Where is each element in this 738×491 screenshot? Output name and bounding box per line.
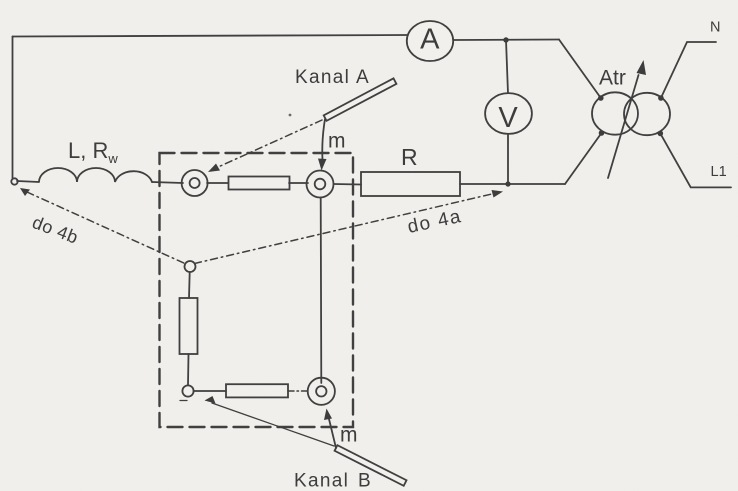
label do4a <box>406 206 464 238</box>
arrow m to T2 <box>322 119 325 160</box>
wire T1 to box resistor <box>207 182 228 184</box>
Atr connection dots <box>598 95 604 101</box>
resistor horizontal bottom <box>226 384 288 397</box>
svg-text:A: A <box>356 67 370 88</box>
svg-text:R: R <box>401 144 418 170</box>
wire junction to V <box>506 40 508 94</box>
wire L1 <box>660 133 731 187</box>
arrow m to T3 <box>329 417 337 448</box>
arrow probe to T1 (dash-dot) <box>216 120 322 168</box>
wire left vertical <box>12 37 14 179</box>
wire N <box>661 42 716 98</box>
wire diagonal to Atr upper-left <box>559 40 601 99</box>
dash fragment near node2 <box>180 400 191 402</box>
svg-text:N: N <box>710 20 720 36</box>
wire top horizontal <box>13 35 408 37</box>
label m bottom <box>340 424 358 447</box>
wire node2 to horizontal resistor <box>194 390 226 392</box>
wire T2 to R <box>334 183 362 186</box>
wire resistor to T2 <box>289 182 308 184</box>
wire vertical resistor to node2 <box>187 354 190 385</box>
terminal T1 <box>182 170 208 196</box>
junction dot top <box>503 37 508 42</box>
svg-text:Kanal: Kanal <box>294 471 349 491</box>
ink speck <box>289 114 292 117</box>
dash-dot wire to terminal <box>288 390 308 392</box>
probe Kanal B <box>335 445 407 486</box>
svg-text:Atr: Atr <box>599 67 626 90</box>
svg-text:L1: L1 <box>711 164 727 180</box>
svg-text:B: B <box>358 471 372 491</box>
node (scope tap) <box>185 261 196 272</box>
inductor L Rw <box>17 168 152 182</box>
wire node to vertical resistor <box>188 272 191 298</box>
node left terminal <box>11 178 17 184</box>
svg-text:m: m <box>328 130 346 153</box>
label do4b <box>30 212 82 248</box>
resistor vertical <box>180 298 198 354</box>
label Kanal B <box>294 471 372 491</box>
dash-dot do4b <box>27 192 185 264</box>
ammeter A <box>407 21 453 61</box>
wire A to junction to corner <box>453 39 559 42</box>
probe Kanal A <box>324 78 397 120</box>
label Atr <box>599 67 626 90</box>
Atr wiper arrow <box>608 75 639 178</box>
svg-text:A: A <box>420 24 440 56</box>
junction dot bottom <box>505 181 510 186</box>
wire diagonal to Atr lower-left <box>565 133 602 184</box>
wire inductor to terminal1 <box>152 182 183 183</box>
dashed box <box>160 153 354 427</box>
wire R to right with junction <box>460 183 565 185</box>
dash-dot do4a <box>195 194 495 264</box>
resistor R <box>361 172 460 196</box>
node 2 <box>182 385 193 396</box>
voltmeter V <box>485 93 532 134</box>
autotransformer Atr circles <box>592 92 638 134</box>
svg-text:V: V <box>498 102 518 134</box>
wire T2 down to bottom terminal <box>320 198 323 384</box>
label L,Rw <box>68 138 118 166</box>
label Kanal A <box>295 67 370 88</box>
terminal T2 (m) <box>307 171 334 198</box>
label m top <box>328 130 346 153</box>
terminal T3 (m bottom) <box>308 378 335 405</box>
arrow probe to node2 (dashed) <box>212 403 334 446</box>
wire V to bottom junction <box>507 134 509 184</box>
label L1 <box>711 164 727 180</box>
label N <box>710 20 720 36</box>
resistor (small, in box) <box>229 177 290 190</box>
svg-text:m: m <box>340 424 358 447</box>
svg-text:Kanal: Kanal <box>295 67 350 88</box>
label R <box>401 144 418 170</box>
